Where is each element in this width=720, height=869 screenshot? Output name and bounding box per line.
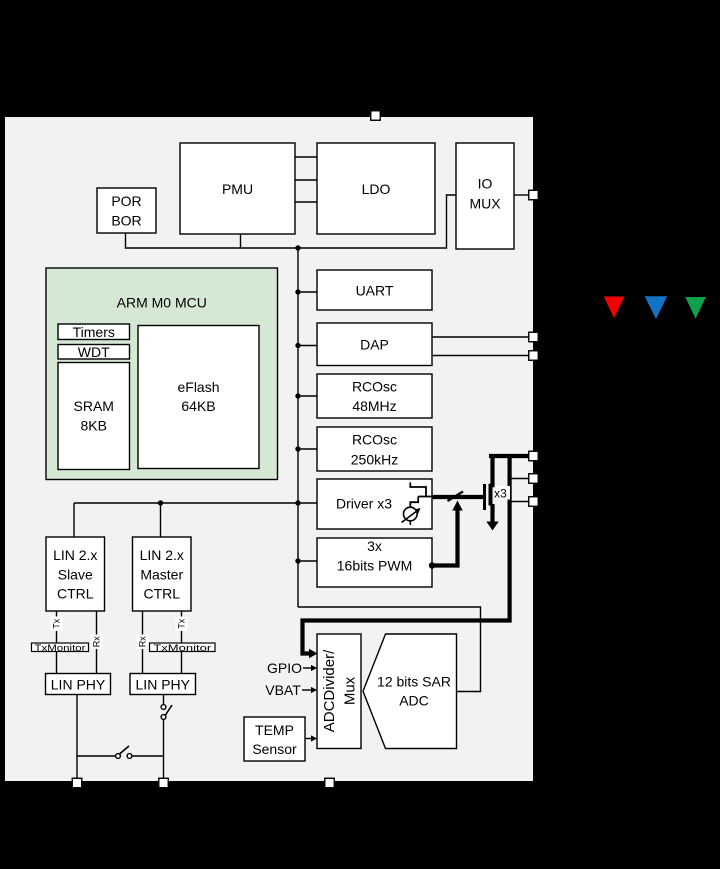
svg-text:64KB: 64KB [181, 398, 215, 414]
wire LED pin 3 [512, 501, 530, 503]
svg-text:ADCDivider/: ADCDivider/ [321, 649, 338, 732]
wire IO MUX to pin [514, 194, 529, 196]
svg-text:POR: POR [111, 193, 141, 209]
svg-text:TxMonitor: TxMonitor [35, 643, 86, 653]
svg-text:LDO: LDO [362, 181, 391, 197]
label x3 on MOSFET [494, 486, 510, 501]
block RCOsc 48MHz [317, 374, 432, 418]
svg-text:RCOsc: RCOsc [352, 432, 397, 448]
svg-text:Mux: Mux [342, 676, 359, 705]
svg-text:TxMonitor: TxMonitor [153, 643, 211, 653]
svg-text:UART: UART [356, 283, 394, 299]
wire rail drop to LIN master [160, 503, 162, 537]
svg-text:12 bits SAR: 12 bits SAR [377, 674, 451, 690]
wire slave Rx [96, 611, 98, 674]
label slave Rx [91, 635, 103, 650]
wire TEMP sensor to mux with arrow [305, 738, 312, 740]
pin right LED3 [529, 497, 539, 507]
block LIN 2.x Slave CTRL [46, 537, 105, 611]
block LIN PHY master [130, 674, 196, 695]
wire PMU-LDO connector 1 [295, 156, 317, 158]
wire slave Tx [56, 611, 58, 674]
svg-text:3x: 3x [367, 538, 382, 554]
wire bus to SAR ADC [298, 607, 481, 692]
svg-text:RCOsc: RCOsc [352, 379, 397, 395]
junction dot PWM [295, 558, 300, 563]
junction dot RCOsc250 [295, 446, 300, 451]
block TEMP Sensor [244, 717, 305, 761]
svg-text:Rx: Rx [92, 636, 102, 647]
wire switch to master LIN pin [163, 720, 165, 779]
thick wire Driver gate bus [433, 495, 485, 499]
svg-text:PMU: PMU [222, 181, 253, 197]
thick wire PWM gate drive to driver MOSFET with up arrow [429, 501, 463, 569]
svg-text:SRAM: SRAM [74, 398, 114, 414]
block WDT [58, 344, 130, 360]
junction dot bus/rail [295, 245, 300, 250]
svg-text:8KB: 8KB [81, 418, 107, 434]
pin right DAP1 [529, 332, 539, 342]
thick wire LED sense to GPIO/ADC mux [303, 456, 510, 654]
svg-text:Tx: Tx [52, 618, 62, 628]
wire rail to Driver (shared with LIN rail) [74, 502, 317, 504]
LED D1 red [604, 297, 625, 319]
label master Tx [176, 617, 188, 632]
svg-text:ADC: ADC [399, 693, 429, 709]
wire bus to RCOsc 250kHz [298, 448, 317, 450]
wire DAP to pin 1 [432, 336, 529, 338]
block TxMonitor slave [32, 643, 89, 653]
block PMU [180, 143, 295, 234]
pin bottom VBAT [325, 778, 335, 788]
label GPIO with arrow into mux [267, 660, 317, 676]
block POR/BOR [97, 188, 156, 233]
block UART [317, 270, 432, 310]
junction dot DAP [295, 343, 300, 348]
svg-text:MUX: MUX [469, 196, 501, 212]
wire PMU-LDO connector 2 [295, 179, 317, 181]
wire DAP to pin 2 [432, 355, 529, 357]
pin bottom LIN2 [159, 778, 169, 788]
pin right DAP2 [529, 351, 539, 361]
block DAP [317, 323, 432, 366]
thick wire MOSFET drain to LED pin [489, 454, 530, 458]
switch SW2 crossover (horizontal) [116, 746, 132, 758]
pin right IO [529, 190, 539, 200]
svg-text:CTRL: CTRL [143, 586, 180, 602]
LED D3 green [685, 297, 706, 319]
arrowhead GPIO into ADC mux [309, 649, 318, 659]
label VBAT with arrow into mux [265, 682, 317, 698]
label master Rx [137, 635, 149, 650]
wire bus to RCOsc 48MHz [298, 395, 317, 397]
svg-text:ARM M0 MCU: ARM M0 MCU [117, 295, 207, 311]
block LDO [317, 143, 435, 234]
svg-text:LIN 2.x: LIN 2.x [140, 547, 184, 563]
pin right LED1 [529, 451, 539, 461]
svg-text:16bits PWM: 16bits PWM [337, 558, 412, 574]
pin bottom LIN1 [72, 778, 82, 788]
block ADCDivider/Mux [317, 634, 361, 749]
svg-text:IO: IO [478, 176, 493, 192]
pin right LED2 [529, 474, 539, 484]
bus width slash x3 marker [448, 492, 464, 502]
transistor Q1 power MOSFET x3 [485, 456, 499, 531]
svg-text:LIN PHY: LIN PHY [136, 677, 191, 693]
wire bus to DAP [298, 345, 317, 347]
wire bus to UART [298, 291, 317, 293]
svg-text:BOR: BOR [111, 213, 141, 229]
wire PMU bottom tap [240, 234, 242, 248]
block eFlash 64KB [138, 326, 259, 469]
wire rail drop to LIN slave [73, 503, 75, 537]
block ARM M0 MCU [46, 268, 278, 480]
block Driver x3 [317, 479, 432, 529]
block LIN PHY slave [46, 674, 111, 695]
block LIN 2.x Master CTRL [133, 537, 192, 611]
wire master Tx [181, 611, 183, 674]
svg-text:DAP: DAP [360, 337, 389, 353]
wire crossover between LIN pins [77, 755, 164, 757]
wire POR/BOR to supply rail to IO MUX [126, 195, 457, 248]
wire LED pin 2 [512, 478, 530, 480]
svg-text:VBAT: VBAT [265, 682, 301, 698]
block SRAM 8KB [58, 363, 130, 470]
block 3x 16bits PWM [317, 538, 432, 587]
switch SW1 master PHY (vertical) [161, 705, 172, 720]
LED D2 blue [645, 296, 668, 319]
svg-text:WDT: WDT [78, 344, 110, 360]
svg-text:eFlash: eFlash [177, 379, 219, 395]
junction dot LIN master rail [158, 500, 163, 505]
wire internal bus vertical [297, 248, 299, 607]
wire master Rx [142, 611, 144, 674]
svg-text:Master: Master [140, 567, 183, 583]
svg-text:Sensor: Sensor [252, 741, 297, 757]
svg-text:TEMP: TEMP [255, 722, 294, 738]
svg-text:48MHz: 48MHz [352, 398, 396, 414]
svg-text:Rx: Rx [138, 636, 148, 647]
junction dot Driver/rail [295, 500, 300, 505]
svg-text:Slave: Slave [58, 567, 93, 583]
svg-text:Driver x3: Driver x3 [336, 496, 392, 512]
svg-text:GPIO: GPIO [267, 660, 302, 676]
label slave Tx [51, 617, 63, 632]
block TxMonitor master [150, 643, 216, 653]
wire PMU-LDO connector 3 [295, 201, 317, 203]
chip body U1 [4, 116, 534, 782]
block IO MUX [456, 143, 514, 249]
svg-text:x3: x3 [494, 487, 507, 501]
junction dot RCOsc48 [295, 393, 300, 398]
svg-text:Tx: Tx [177, 618, 187, 628]
driver output stage icon inside Driver x3 [402, 483, 433, 526]
svg-text:LIN PHY: LIN PHY [51, 677, 106, 693]
wire slave PHY to LIN pin [76, 695, 78, 779]
block RCOsc 250kHz [317, 427, 432, 471]
svg-text:LIN 2.x: LIN 2.x [53, 547, 97, 563]
block 12 bits SAR ADC [363, 634, 457, 749]
svg-text:CTRL: CTRL [57, 586, 94, 602]
svg-text:250kHz: 250kHz [351, 452, 398, 468]
block Timers [58, 324, 130, 340]
wire master PHY to switch [163, 695, 165, 705]
pin top VDD [371, 111, 381, 121]
wire bus to PWM [298, 560, 317, 562]
svg-text:Timers: Timers [73, 324, 115, 340]
junction dot UART [295, 289, 300, 294]
